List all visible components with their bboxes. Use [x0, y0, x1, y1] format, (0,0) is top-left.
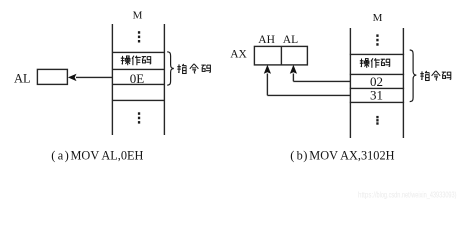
- svg-text:AL: AL: [14, 72, 31, 86]
- svg-text:MOV AX,3102H: MOV AX,3102H: [309, 148, 394, 162]
- svg-text:M: M: [373, 12, 383, 24]
- svg-text:AL: AL: [283, 34, 298, 46]
- svg-text:https:: https:: [358, 190, 373, 200]
- svg-text:AH: AH: [258, 34, 275, 46]
- svg-text:M: M: [133, 9, 143, 21]
- svg-text:a: a: [58, 148, 64, 162]
- svg-text:AX: AX: [230, 49, 247, 61]
- svg-text:b: b: [297, 148, 303, 162]
- svg-text:0E: 0E: [130, 71, 145, 86]
- svg-text:MOV AL,0EH: MOV AL,0EH: [71, 148, 144, 162]
- svg-text:): ): [65, 148, 69, 162]
- svg-text:(: (: [290, 148, 294, 162]
- svg-text:): ): [303, 148, 307, 162]
- svg-text:(: (: [51, 148, 55, 162]
- svg-text://blog.csdn.net/weixin_4393309: //blog.csdn.net/weixin_43933093): [373, 190, 456, 200]
- svg-text:31: 31: [370, 87, 383, 102]
